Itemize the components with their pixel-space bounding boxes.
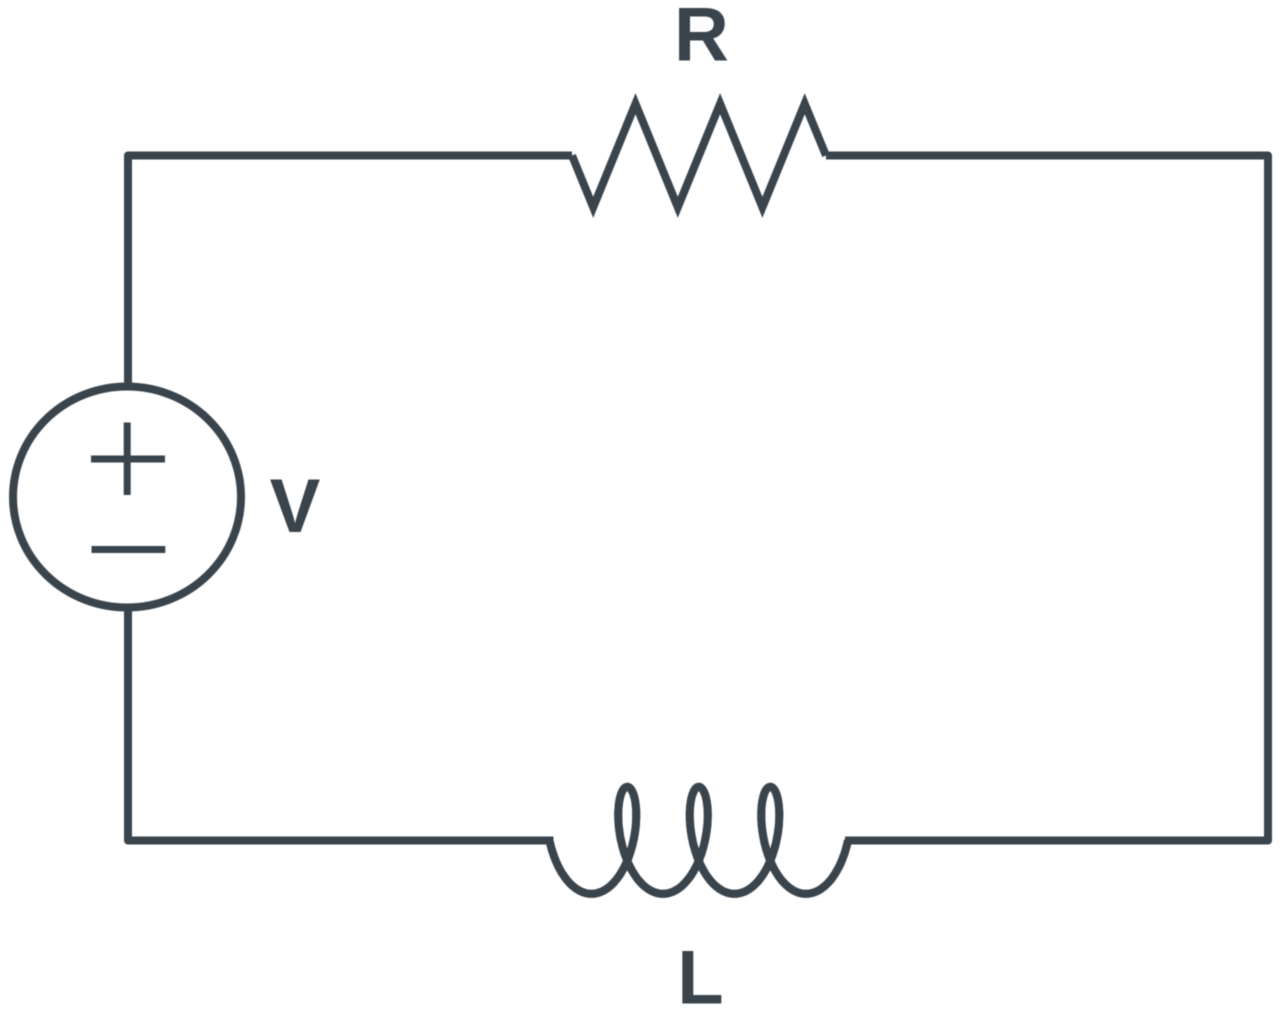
svg-text:R: R bbox=[674, 0, 729, 78]
svg-text:L: L bbox=[677, 936, 723, 1011]
svg-text:V: V bbox=[270, 464, 321, 549]
